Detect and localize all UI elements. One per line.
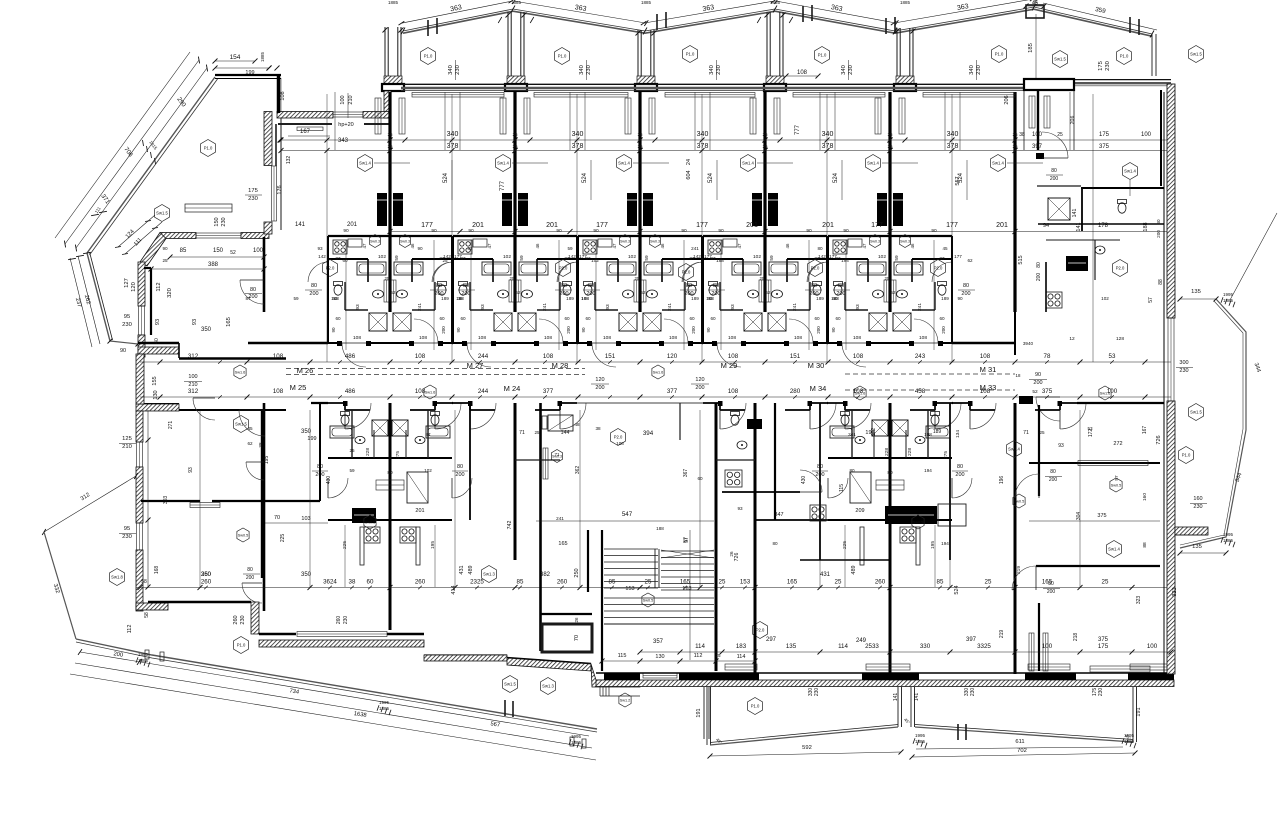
svg-text:230: 230 [248, 196, 258, 202]
lower right apartment walls [1038, 405, 1040, 496]
top wall right section [1049, 79, 1171, 81]
svg-text:260: 260 [415, 579, 426, 586]
svg-text:280: 280 [790, 388, 801, 395]
svg-text:80: 80 [686, 283, 692, 289]
svg-text:524: 524 [582, 172, 588, 183]
svg-text:3940: 3940 [1023, 341, 1034, 346]
svg-text:112: 112 [694, 653, 703, 659]
svg-text:108: 108 [478, 335, 486, 341]
svg-text:200: 200 [961, 291, 970, 297]
svg-text:40: 40 [154, 338, 160, 344]
svg-text:347: 347 [774, 512, 783, 518]
svg-text:100: 100 [188, 374, 197, 380]
svg-text:Sw0.3: Sw0.3 [650, 240, 660, 244]
svg-text:120: 120 [695, 377, 704, 383]
tubs flanking wall [732, 262, 761, 275]
svg-text:Sw1.5: Sw1.5 [156, 211, 168, 216]
svg-text:80: 80 [561, 283, 567, 289]
svg-text:52: 52 [230, 250, 236, 256]
svg-text:45: 45 [942, 246, 948, 251]
svg-text:59: 59 [894, 255, 900, 261]
right apt door arc at partition [1042, 157, 1068, 159]
svg-text:163: 163 [682, 586, 691, 592]
entry door arcs into corridor [467, 342, 491, 344]
counter [848, 239, 862, 247]
dim 359 top right [1043, 3, 1157, 30]
terrace tick clusters [136, 657, 138, 663]
svg-text:200: 200 [1036, 273, 1042, 282]
svg-text:108: 108 [669, 335, 677, 341]
ridge pier small [1026, 5, 1044, 18]
svg-text:Sw1.3: Sw1.3 [542, 684, 554, 689]
svg-text:130: 130 [655, 654, 664, 660]
svg-text:38: 38 [349, 579, 356, 586]
svg-text:90: 90 [831, 327, 836, 333]
counter [598, 239, 612, 247]
counter [723, 239, 737, 247]
svg-text:524: 524 [833, 172, 839, 183]
svg-text:108: 108 [797, 70, 808, 76]
peak pier side ticks [498, 17, 502, 23]
svg-text:1995: 1995 [1223, 292, 1234, 297]
dim 154/199 over left wing [215, 60, 255, 62]
svg-text:200: 200 [441, 326, 446, 334]
svg-text:200: 200 [809, 291, 818, 297]
svg-text:52: 52 [1032, 389, 1038, 395]
svg-text:141: 141 [295, 222, 306, 228]
dark shaft blocks [502, 193, 512, 226]
svg-text:100: 100 [340, 95, 346, 104]
corridor dashed lines [286, 368, 585, 370]
svg-text:524: 524 [954, 585, 960, 594]
svg-text:53: 53 [332, 296, 338, 301]
svg-text:340: 340 [579, 65, 585, 75]
svg-text:194: 194 [924, 468, 932, 473]
svg-text:38: 38 [258, 442, 263, 448]
svg-text:200: 200 [309, 291, 318, 297]
svg-text:Sw1.4: Sw1.4 [867, 161, 879, 166]
svg-text:304: 304 [1076, 512, 1082, 521]
svg-text:25: 25 [1012, 144, 1018, 149]
door arcs core side [327, 262, 329, 282]
corridor door arc left [193, 397, 215, 399]
wardrobe rects flanking party wall [625, 98, 631, 134]
svg-text:189: 189 [933, 429, 942, 435]
entry door arcs into corridor [842, 342, 866, 344]
svg-text:80: 80 [457, 464, 463, 470]
svg-text:201: 201 [415, 508, 424, 514]
svg-text:330: 330 [920, 643, 931, 650]
svg-text:230: 230 [455, 65, 461, 75]
svg-text:71: 71 [1023, 430, 1029, 436]
svg-text:230: 230 [122, 322, 132, 328]
svg-text:200: 200 [691, 326, 696, 334]
svg-text:142: 142 [693, 254, 701, 259]
svg-text:100: 100 [253, 248, 264, 254]
svg-text:323: 323 [1136, 596, 1142, 605]
svg-text:102: 102 [628, 254, 636, 260]
showers [494, 313, 512, 331]
hex markers P1.0 top strip [421, 48, 436, 65]
svg-text:90: 90 [806, 228, 812, 234]
svg-text:177: 177 [871, 222, 883, 229]
wardrobe rects flanking party wall [750, 98, 756, 134]
main top exterior wall [401, 83, 1049, 85]
svg-text:200: 200 [1050, 176, 1059, 182]
Sw1.4 hexes upper rooms [358, 155, 373, 172]
svg-text:201: 201 [996, 222, 1008, 229]
svg-text:102: 102 [591, 258, 599, 263]
wall under module 765 rooms [722, 491, 800, 493]
corner tick cluster [83, 252, 91, 253]
main bottom wall [596, 672, 1174, 674]
svg-text:47: 47 [362, 243, 367, 248]
svg-text:125: 125 [122, 436, 132, 442]
svg-text:P2.0: P2.0 [934, 266, 943, 271]
lower mid partitions [515, 459, 560, 461]
svg-text:200: 200 [559, 291, 568, 297]
svg-text:60: 60 [439, 316, 445, 321]
washbasins [873, 290, 884, 298]
svg-text:726: 726 [734, 553, 740, 562]
svg-text:Sw0.3: Sw0.3 [552, 455, 562, 459]
svg-text:1885: 1885 [1223, 298, 1234, 303]
svg-text:323: 323 [1172, 587, 1178, 596]
svg-text:112: 112 [156, 282, 162, 291]
svg-text:M 31: M 31 [980, 365, 997, 374]
left terrace west edge [44, 532, 76, 639]
svg-text:206: 206 [1070, 116, 1076, 125]
svg-text:57: 57 [1148, 297, 1154, 303]
tubs flanking wall [857, 262, 886, 275]
svg-text:P2.0: P2.0 [682, 270, 691, 275]
door arcs core side [452, 262, 454, 282]
svg-text:312: 312 [188, 388, 199, 395]
dark shaft blocks [627, 193, 637, 226]
svg-text:108: 108 [273, 388, 284, 395]
stove [833, 240, 847, 254]
witness verticals upper rooms [334, 92, 336, 150]
svg-text:777: 777 [500, 180, 506, 191]
svg-text:120: 120 [131, 282, 137, 292]
party wall x=390 [388, 92, 391, 312]
svg-text:25: 25 [387, 132, 393, 137]
svg-text:102: 102 [878, 254, 886, 260]
toilets [709, 285, 717, 295]
svg-text:Sw1.5: Sw1.5 [1054, 57, 1066, 62]
lower party walls [389, 403, 392, 630]
svg-text:108: 108 [853, 353, 864, 360]
svg-text:141: 141 [1072, 209, 1078, 218]
duct rects at wall [509, 280, 514, 302]
svg-text:Sw1.4: Sw1.4 [742, 161, 754, 166]
svg-text:Sw1.6: Sw1.6 [653, 371, 664, 375]
svg-text:1995: 1995 [138, 652, 149, 657]
svg-text:241: 241 [667, 303, 673, 311]
core walls [578, 235, 702, 237]
svg-text:Sw1.8: Sw1.8 [111, 575, 123, 580]
svg-text:378: 378 [572, 143, 584, 150]
svg-text:80: 80 [1050, 469, 1056, 475]
svg-text:108: 108 [728, 335, 736, 341]
right balcony rail vertical [1151, 34, 1153, 76]
svg-text:59: 59 [519, 255, 525, 261]
showers [369, 313, 387, 331]
svg-text:45: 45 [247, 426, 253, 431]
svg-text:260: 260 [875, 579, 886, 586]
svg-text:Sw0.3: Sw0.3 [400, 240, 410, 244]
vestibule walls [539, 403, 542, 651]
svg-text:93: 93 [480, 304, 486, 310]
svg-text:P1.0: P1.0 [686, 52, 695, 57]
svg-text:90: 90 [1035, 372, 1041, 378]
svg-text:108: 108 [853, 335, 861, 341]
svg-text:100: 100 [1042, 643, 1053, 650]
balcony railing posts [706, 687, 708, 745]
svg-text:46: 46 [535, 243, 540, 248]
balcony railing slopes [710, 727, 898, 745]
svg-text:P1.0: P1.0 [237, 643, 246, 648]
extra details core 890 [885, 506, 937, 524]
svg-text:87: 87 [835, 256, 841, 261]
svg-text:230: 230 [586, 65, 592, 75]
svg-text:120: 120 [667, 353, 678, 360]
svg-text:200: 200 [1156, 230, 1161, 238]
svg-text:1995: 1995 [379, 700, 390, 705]
svg-text:397: 397 [966, 637, 977, 643]
svg-text:200: 200 [246, 575, 255, 581]
svg-text:59: 59 [769, 255, 775, 261]
svg-text:228: 228 [365, 448, 371, 456]
svg-text:62: 62 [891, 290, 896, 295]
svg-text:85: 85 [609, 579, 616, 586]
right apt toilet [1118, 203, 1126, 213]
svg-text:241: 241 [848, 432, 856, 437]
right tick clusters [1221, 297, 1223, 303]
svg-text:200: 200 [955, 472, 964, 478]
svg-text:200: 200 [695, 385, 704, 391]
svg-text:103: 103 [301, 516, 310, 522]
svg-text:Sw0.5: Sw0.5 [643, 599, 654, 603]
lower chain y=652 [640, 651, 1171, 653]
svg-text:726: 726 [1156, 435, 1162, 444]
svg-text:90: 90 [681, 228, 687, 234]
door arc left wing [240, 279, 264, 281]
svg-text:1885: 1885 [900, 0, 911, 5]
1995 tick clusters bottom [913, 738, 915, 744]
svg-text:244: 244 [478, 388, 489, 395]
svg-text:P1.0: P1.0 [751, 704, 760, 709]
recessed wall inner face [278, 123, 332, 125]
svg-text:Sw1.6: Sw1.6 [1100, 392, 1111, 396]
svg-text:1885: 1885 [1223, 538, 1234, 543]
svg-text:93: 93 [605, 304, 611, 310]
svg-text:90: 90 [343, 228, 349, 234]
counter [473, 239, 487, 247]
svg-text:114: 114 [695, 643, 705, 650]
svg-text:90: 90 [957, 296, 963, 301]
svg-text:90: 90 [456, 327, 461, 333]
svg-text:80: 80 [849, 468, 855, 473]
svg-text:60: 60 [835, 316, 841, 321]
svg-text:378: 378 [697, 143, 709, 150]
svg-text:175: 175 [248, 188, 258, 194]
corridor small hexes [234, 365, 246, 379]
left vertical dim chain lower [147, 410, 149, 587]
terrace dim diagonal 371 [55, 52, 190, 238]
svg-text:120: 120 [595, 377, 604, 383]
svg-text:154: 154 [230, 54, 241, 61]
extra lower walls [774, 403, 776, 520]
svg-text:200: 200 [1033, 380, 1042, 386]
stairwell walls [601, 530, 603, 671]
svg-text:46: 46 [785, 243, 790, 248]
svg-text:702: 702 [1017, 748, 1027, 754]
svg-text:93: 93 [737, 506, 743, 511]
svg-text:Sw0.5: Sw0.5 [365, 521, 376, 525]
svg-text:80: 80 [887, 470, 893, 476]
svg-text:25: 25 [349, 448, 355, 453]
svg-text:241: 241 [691, 246, 699, 251]
svg-text:P1.0: P1.0 [204, 146, 213, 151]
tubs flanking wall [357, 262, 386, 275]
svg-text:524: 524 [443, 172, 449, 183]
svg-text:P1.0: P1.0 [1120, 54, 1129, 59]
svg-text:177: 177 [421, 222, 433, 229]
svg-text:87: 87 [939, 256, 945, 261]
svg-text:1995: 1995 [1223, 532, 1234, 537]
svg-text:241: 241 [556, 516, 564, 521]
svg-text:165: 165 [226, 317, 232, 327]
svg-text:201: 201 [822, 222, 834, 229]
svg-text:167: 167 [300, 129, 311, 135]
svg-text:394: 394 [643, 430, 654, 437]
svg-text:25: 25 [760, 276, 765, 281]
svg-text:90: 90 [417, 246, 423, 251]
core walls [328, 235, 452, 237]
svg-text:168: 168 [154, 566, 160, 575]
right apt fixtures walls [1045, 262, 1047, 312]
svg-text:85: 85 [180, 248, 187, 254]
svg-text:3624: 3624 [323, 579, 337, 586]
svg-text:80: 80 [811, 283, 817, 289]
svg-text:320: 320 [167, 288, 173, 298]
svg-text:P2.0: P2.0 [614, 435, 623, 440]
svg-text:80: 80 [247, 567, 253, 573]
svg-text:Sw1.4: Sw1.4 [992, 161, 1004, 166]
svg-text:191: 191 [696, 708, 702, 717]
entry door sill in bottom wall [642, 673, 678, 679]
balcony dims 592 611 702 [710, 752, 901, 756]
counter [348, 239, 362, 247]
terrace dim diagonal 290 [76, 68, 207, 248]
terrace railing diagonal upper-left [87, 77, 215, 253]
right apt partition x=1042 [1024, 79, 1074, 90]
terrace dim lines with labels [80, 652, 589, 736]
top balcony zigzag railing [403, 7, 1152, 34]
svg-text:108: 108 [353, 335, 361, 341]
svg-text:80: 80 [817, 246, 823, 251]
svg-text:38: 38 [595, 426, 601, 431]
svg-text:165: 165 [680, 579, 691, 586]
lower-left bottom walls stepped [136, 603, 168, 610]
svg-text:340: 340 [822, 131, 834, 138]
svg-text:108: 108 [415, 353, 426, 360]
svg-text:230: 230 [122, 534, 132, 540]
toilets [459, 285, 467, 295]
svg-text:271: 271 [168, 421, 174, 430]
black door posts [587, 341, 592, 346]
svg-text:60: 60 [710, 316, 716, 321]
svg-text:Sw0.3: Sw0.3 [370, 240, 380, 244]
svg-text:127: 127 [124, 278, 130, 288]
svg-text:90: 90 [581, 327, 586, 333]
svg-text:200: 200 [455, 472, 464, 478]
svg-text:228: 228 [884, 448, 890, 456]
svg-text:175: 175 [1098, 61, 1104, 71]
svg-text:Sw0.5: Sw0.5 [913, 521, 924, 525]
left wing west wall [138, 262, 145, 306]
svg-text:209: 209 [855, 508, 864, 514]
left-wing top wall [215, 74, 281, 76]
svg-text:100: 100 [1032, 132, 1043, 138]
svg-text:275: 275 [395, 451, 401, 459]
toilets [334, 285, 342, 295]
svg-text:430: 430 [326, 476, 332, 485]
lower diagonal rail to SW corner of wing [87, 253, 110, 341]
svg-text:102: 102 [503, 254, 511, 260]
svg-text:260: 260 [201, 579, 212, 586]
wing inner wall x=262 [261, 410, 263, 578]
svg-text:90: 90 [162, 246, 168, 251]
svg-text:167: 167 [1142, 426, 1148, 435]
svg-text:199: 199 [865, 430, 874, 436]
svg-text:90: 90 [331, 327, 336, 333]
svg-text:592: 592 [802, 745, 812, 751]
wardrobe rects flanking party wall [375, 98, 381, 134]
svg-text:108: 108 [919, 335, 927, 341]
svg-text:25: 25 [645, 579, 652, 586]
svg-text:60: 60 [564, 316, 570, 321]
bottom wall black segments [604, 673, 640, 681]
washbasins [373, 290, 384, 298]
lower apartments north walls [328, 402, 345, 404]
wardrobe rects flanking party wall [500, 98, 506, 134]
svg-text:Sw1.4: Sw1.4 [1008, 447, 1020, 452]
svg-text:M 24: M 24 [504, 384, 521, 393]
svg-text:25: 25 [1012, 132, 1018, 137]
right apt lower window strip [1090, 666, 1150, 672]
svg-text:191: 191 [1136, 707, 1142, 716]
svg-text:38: 38 [457, 296, 463, 301]
svg-text:210: 210 [348, 95, 354, 104]
svg-text:130: 130 [153, 390, 159, 399]
svg-text:108: 108 [616, 441, 624, 446]
svg-text:58: 58 [144, 612, 150, 618]
stair treads lower [604, 597, 714, 599]
balcony door sills bottom [725, 664, 757, 670]
fixtures near lower module 765 [731, 415, 739, 425]
stove [708, 240, 722, 254]
svg-text:200: 200 [1049, 477, 1058, 483]
svg-text:Sw1.6: Sw1.6 [425, 391, 436, 395]
svg-text:P1.0: P1.0 [1182, 453, 1191, 458]
svg-text:230: 230 [716, 65, 722, 75]
svg-text:340: 340 [697, 131, 709, 138]
svg-text:1885: 1885 [915, 739, 926, 744]
svg-text:80: 80 [1048, 581, 1054, 587]
left wing corridor walls [138, 342, 179, 344]
